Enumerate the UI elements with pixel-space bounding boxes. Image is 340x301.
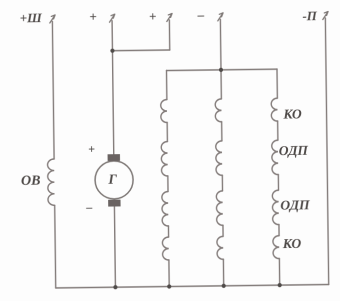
svg-text:-П: -П <box>302 8 318 23</box>
arrow terminal L4 <box>218 13 224 21</box>
svg-text:+: + <box>88 142 95 156</box>
junction H2/L4 <box>219 68 223 72</box>
wire (middle column, between KO and ODP) <box>221 122 223 141</box>
arrow terminal L5 <box>323 12 329 20</box>
wire L5 vertical -П <box>325 18 328 284</box>
junction H1/L2 <box>110 49 114 53</box>
wire (right column, lower segment to bus) <box>278 259 280 285</box>
winding KO bottom (left column) <box>162 237 168 260</box>
wire L1 riser from +Ш terminal <box>52 21 54 158</box>
wire L4 riser from − terminal <box>219 19 222 98</box>
winding KO bottom (middle column) <box>217 236 223 259</box>
wire (right column, between KO and ODP) <box>277 121 279 140</box>
winding OV (ОВ shunt field coil) <box>48 159 55 205</box>
wire (left column, between KO and ODP) <box>166 123 168 142</box>
wire right column drop from H2 bus <box>276 69 278 98</box>
wire (right column, between ODP coils) <box>277 175 279 190</box>
svg-text:КО: КО <box>282 236 302 251</box>
arrow terminal L2 <box>109 14 115 22</box>
generator top brush <box>108 154 120 161</box>
wire L1 lower segment <box>55 205 56 288</box>
winding ODP upper (left column) <box>161 142 168 177</box>
winding ODP upper (middle column) <box>216 141 223 176</box>
wire L2 vertical to generator <box>112 21 114 155</box>
junction bus/C-left <box>167 284 171 288</box>
svg-text:+: + <box>149 9 157 24</box>
svg-text:ОДП: ОДП <box>280 197 310 212</box>
winding ODP lower (middle column) <box>216 191 223 226</box>
wire L2 below generator <box>114 206 115 287</box>
svg-text:Г: Г <box>107 173 117 188</box>
svg-text:+Ш: +Ш <box>20 10 43 25</box>
wire (middle column, between ODP and KO) <box>222 225 224 236</box>
winding KO top (middle column) <box>215 99 221 122</box>
winding ODP lower (right column) <box>272 190 279 225</box>
wire (left column, between ODP coils) <box>167 176 169 191</box>
wire (middle column, lower segment to bus) <box>222 259 224 285</box>
winding KO top (left column) <box>161 100 167 123</box>
wire (left column, lower segment to bus) <box>168 260 170 286</box>
svg-text:–: – <box>85 200 92 214</box>
svg-text:ОДП: ОДП <box>279 143 309 158</box>
winding KO bottom (right column) <box>273 236 279 259</box>
generator bottom brush <box>108 200 120 207</box>
winding ODP upper (right column) <box>272 140 279 175</box>
wire L3 vertical short <box>168 20 170 50</box>
arrow terminal L1 <box>50 15 56 23</box>
junction bus/L2 <box>113 285 117 289</box>
junction bus/C-right <box>278 283 282 287</box>
generator G circle <box>95 161 133 199</box>
winding ODP lower (left column) <box>162 192 169 227</box>
svg-text:+: + <box>89 9 97 24</box>
svg-text:ОВ: ОВ <box>21 174 41 189</box>
wire bottom bus <box>56 285 329 288</box>
wire (middle column, between ODP coils) <box>221 175 223 190</box>
wire H2 bus <box>167 69 277 70</box>
svg-text:–: – <box>197 7 205 22</box>
wire H1 connector <box>112 49 169 52</box>
wire (right column, between ODP and KO) <box>278 225 280 236</box>
wire left column drop from H2 bus <box>166 71 168 100</box>
svg-text:КО: КО <box>282 106 302 121</box>
wire (left column, between ODP and KO) <box>167 226 169 237</box>
arrow terminal L3 <box>167 13 173 21</box>
winding KO top (right column) <box>271 98 277 121</box>
junction bus/L4 <box>222 284 226 288</box>
